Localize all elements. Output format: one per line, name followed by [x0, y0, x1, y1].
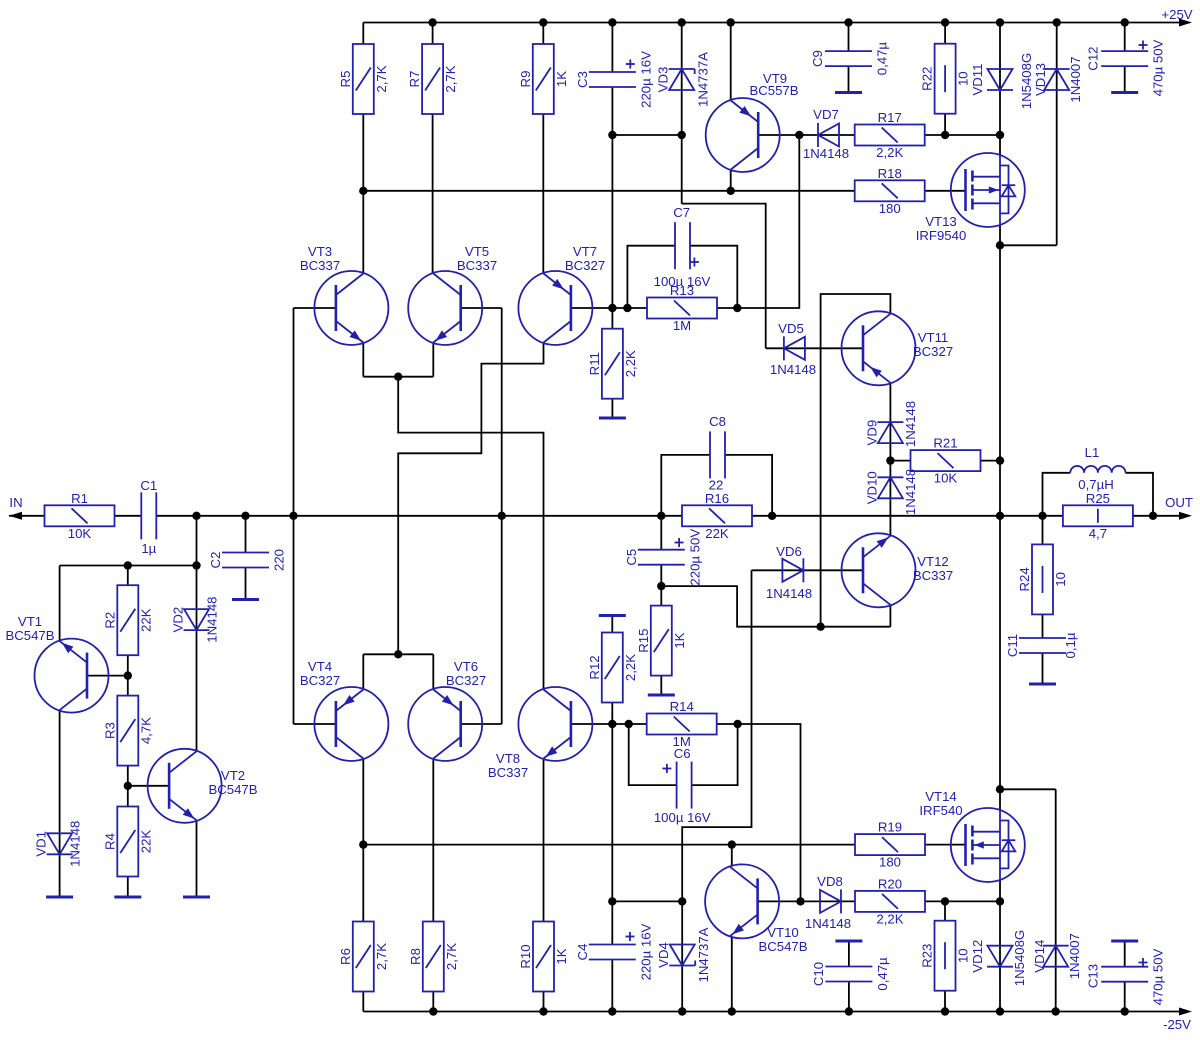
wire VT10 collector: [731, 845, 733, 867]
svg-text:2,7K: 2,7K: [444, 943, 459, 970]
wire VT9 collector to rail: [730, 170, 732, 191]
svg-text:BC327: BC327: [565, 258, 605, 273]
svg-text:R4: R4: [102, 833, 117, 850]
ground C10: [835, 940, 862, 943]
svg-text:1N4007: 1N4007: [1068, 56, 1083, 102]
capacitor C9: [810, 42, 890, 76]
svg-text:2,2K: 2,2K: [623, 350, 638, 377]
junction R23 bottom rail: [941, 1007, 949, 1015]
capacitor C8: [709, 414, 726, 493]
svg-text:VT1: VT1: [18, 614, 42, 629]
svg-text:1M: 1M: [673, 318, 691, 333]
wire R7 top: [432, 23, 434, 45]
svg-text:R18: R18: [878, 166, 902, 181]
svg-text:OUT: OUT: [1165, 495, 1193, 510]
wire R10 bottom: [543, 992, 545, 1012]
junction C9 top rail: [844, 18, 852, 26]
resistor R20: [855, 876, 925, 926]
wire stair top emitters to VT8 collector: [398, 377, 543, 689]
wire VT5/VT6 base column: [501, 308, 503, 724]
capacitor C4: [575, 923, 654, 980]
wire R21 right lead: [980, 460, 1001, 462]
node IN terminal: [9, 495, 45, 520]
ground C2: [232, 598, 259, 601]
ground C12: [1111, 91, 1138, 94]
svg-text:1N4148: 1N4148: [766, 586, 812, 601]
svg-text:C1: C1: [140, 478, 157, 493]
resistor R21: [911, 436, 981, 486]
resistor R17: [855, 110, 925, 160]
wire VT10 base through VD8 to R20: [758, 900, 855, 902]
transistor VT4: [300, 659, 389, 761]
wire R8 bottom: [432, 992, 434, 1012]
svg-text:VD12: VD12: [970, 940, 985, 973]
svg-text:R7: R7: [407, 71, 422, 88]
wire main line R16 to R25: [752, 515, 1063, 517]
svg-text:R24: R24: [1017, 567, 1032, 591]
svg-text:100µ 16V: 100µ 16V: [654, 274, 711, 289]
zener VD3: [656, 52, 711, 107]
junction R16 right C8: [768, 512, 776, 520]
junction R22 bottom R17: [941, 131, 949, 139]
svg-text:VD5: VD5: [778, 321, 804, 336]
wire R4 bottom to ground: [127, 877, 129, 896]
resistor R7: [407, 44, 458, 114]
wire collector rail y190: [363, 190, 855, 192]
wire R13 right lead: [717, 307, 738, 309]
svg-text:VT5: VT5: [465, 244, 489, 259]
wire R5 top: [362, 23, 364, 45]
diode VD7: [803, 107, 849, 161]
svg-text:VD14: VD14: [1032, 940, 1047, 973]
svg-text:BC327: BC327: [300, 673, 340, 688]
svg-text:22K: 22K: [138, 608, 153, 632]
junction VT4 collector rail: [359, 840, 367, 848]
wire R5 bottom to rail: [362, 114, 364, 191]
wire C3 bottom column: [611, 87, 613, 308]
svg-text:1µ: 1µ: [141, 541, 156, 556]
wire R24 top: [1042, 516, 1044, 545]
junction VD2 top: [192, 561, 200, 569]
wire VT8 base row: [571, 723, 647, 725]
wire C5 top: [660, 516, 662, 550]
wire bias row y=565: [60, 565, 197, 567]
svg-text:C7: C7: [673, 205, 690, 220]
svg-text:VD2: VD2: [171, 607, 186, 633]
junction R7 top rail: [428, 18, 436, 26]
svg-text:BC547B: BC547B: [758, 939, 807, 954]
wire R23 bottom: [944, 991, 946, 1012]
resistor R16: [682, 491, 752, 541]
svg-text:VD7: VD7: [813, 107, 839, 122]
capacitor C12: [1086, 39, 1166, 96]
junction C10 bottom rail: [845, 1007, 853, 1015]
wire VT1 emitter up: [59, 566, 61, 641]
junction C7 left: [623, 304, 631, 312]
wire MOSFET source column: [999, 245, 1001, 789]
resistor R15: [636, 606, 687, 676]
svg-text:VD1: VD1: [34, 831, 49, 857]
diode VD12: [970, 930, 1027, 986]
svg-text:C6: C6: [674, 746, 691, 761]
wire VD6 row to VT12 base: [752, 569, 864, 571]
junction VT4 VT6 emitters: [394, 650, 402, 658]
wire VT3 emitter: [362, 343, 364, 377]
svg-text:1N5408G: 1N5408G: [1019, 53, 1034, 109]
svg-text:R25: R25: [1086, 491, 1110, 506]
svg-text:VT14: VT14: [925, 789, 957, 804]
junction VT3 VT4 bases: [289, 512, 297, 520]
svg-text:VD8: VD8: [817, 874, 843, 889]
svg-text:0,47µ: 0,47µ: [875, 42, 890, 76]
svg-text:VT6: VT6: [454, 659, 478, 674]
svg-text:BC547B: BC547B: [5, 628, 54, 643]
svg-text:VD4: VD4: [656, 942, 671, 968]
svg-text:1N4148: 1N4148: [805, 916, 851, 931]
wire C12 top: [1124, 23, 1126, 52]
svg-text:4,7: 4,7: [1089, 526, 1107, 541]
wire R8 top / VT6 collector: [432, 759, 434, 922]
svg-text:VT12: VT12: [917, 554, 949, 569]
wire R10 top / VT8 emitter: [543, 759, 545, 922]
svg-text:BC547B: BC547B: [208, 782, 257, 797]
wire VT3/VT4 base column: [293, 308, 295, 724]
svg-text:1N4737A: 1N4737A: [696, 927, 711, 982]
junction R8 bottom rail: [429, 1007, 437, 1015]
junction C5 bottom R15: [657, 582, 665, 590]
transistor VT8: [488, 687, 593, 780]
svg-text:R22: R22: [920, 67, 935, 91]
wire VT9 base drop: [737, 135, 799, 308]
wire R2 top: [127, 566, 129, 586]
wire C12 bottom to ground: [1124, 67, 1126, 92]
resistor R10: [518, 922, 569, 992]
resistor R11: [587, 329, 638, 399]
junction VD9 VD10 R21: [886, 456, 894, 464]
wire R11 bottom to ground: [611, 398, 613, 417]
resistor R5: [338, 44, 389, 114]
svg-text:R8: R8: [408, 948, 423, 965]
junction VT9 emitter rail: [727, 18, 735, 26]
junction VD3 top rail: [678, 18, 686, 26]
wire R22 top: [944, 23, 946, 44]
wire C4 bottom: [611, 960, 613, 1012]
svg-text:VT11: VT11: [918, 330, 949, 345]
wire R12 to C4 column: [611, 703, 613, 945]
junction C12 top rail: [1121, 18, 1129, 26]
wire C7 right loop: [690, 246, 737, 308]
junction VD11 top rail: [996, 18, 1004, 26]
svg-text:VD9: VD9: [864, 420, 879, 446]
svg-text:220µ 16V: 220µ 16V: [638, 51, 653, 108]
ground C11: [1029, 683, 1056, 686]
junction VT3 VT5 emitters: [394, 373, 402, 381]
svg-text:2,7K: 2,7K: [374, 65, 389, 92]
junction C5 C8 R16 left: [657, 512, 665, 520]
ground C13: [1111, 940, 1138, 943]
wire C10 top ground lead: [848, 943, 850, 967]
wire R11 top: [611, 308, 613, 329]
svg-text:470µ 50V: 470µ 50V: [1151, 948, 1166, 1005]
capacitor C1: [140, 478, 157, 556]
svg-text:VD10: VD10: [864, 471, 879, 504]
wire VD6 jog to VD4 node: [682, 570, 751, 901]
junction VD12 bottom rail: [996, 1007, 1004, 1015]
wire C6 right loop: [692, 724, 738, 785]
svg-text:VT10: VT10: [767, 925, 799, 940]
wire top emitters row: [363, 376, 433, 378]
junction R11 C3 column: [608, 304, 616, 312]
svg-text:R17: R17: [878, 110, 902, 125]
wire VD5 row to VT11 base: [766, 347, 863, 349]
wire R3 top: [127, 676, 129, 696]
wire C11 bottom to ground: [1042, 653, 1044, 683]
wire VT10 emitter to -25V: [731, 936, 733, 1011]
capacitor C13: [1086, 948, 1166, 1005]
resistor R25: [1063, 491, 1133, 541]
resistor R2: [102, 585, 153, 655]
svg-text:1N4737A: 1N4737A: [696, 52, 711, 107]
diode VD13: [1033, 56, 1083, 102]
transistor VT2: [148, 749, 258, 823]
transistor VT9: [706, 71, 799, 172]
transistor VT3: [300, 244, 389, 345]
transistor VT11: [842, 311, 954, 385]
junction C4 top node: [608, 897, 616, 905]
ground R4: [114, 896, 141, 899]
wire R4 top: [127, 786, 129, 807]
wire VT2 emitter to ground: [196, 821, 198, 896]
wire VT4 emitter: [362, 654, 364, 689]
resistor R14: [647, 699, 717, 749]
wire R2 bottom to node: [127, 655, 129, 675]
ground R12: [599, 614, 626, 617]
wire R1 to C1: [115, 515, 142, 517]
svg-text:IN: IN: [9, 495, 22, 510]
svg-text:0,47µ: 0,47µ: [875, 957, 890, 991]
svg-text:C10: C10: [811, 962, 826, 986]
wire R18 to VT13 gate: [924, 190, 966, 192]
wire C2 bottom to ground: [245, 568, 247, 599]
wire C5 node jog to driver collectors: [661, 586, 890, 627]
capacitor C2: [208, 549, 287, 571]
svg-text:C4: C4: [575, 944, 590, 961]
svg-text:IRF540: IRF540: [919, 803, 962, 818]
svg-text:2,2K: 2,2K: [876, 145, 903, 160]
junction VT11 VT12 collectors: [816, 623, 824, 631]
wire L1 left leg: [1043, 473, 1071, 516]
svg-text:VT4: VT4: [308, 659, 332, 674]
wire VT13 source: [999, 225, 1001, 245]
svg-text:180: 180: [879, 201, 901, 216]
junction C2 branch: [241, 512, 249, 520]
svg-text:R1: R1: [71, 491, 88, 506]
wire net y135 left segment: [612, 134, 681, 136]
wire R22 bottom: [944, 114, 946, 135]
svg-text:R14: R14: [670, 699, 694, 714]
junction VD14 bottom rail: [1052, 1007, 1060, 1015]
junction VD4 bottom rail: [678, 1007, 686, 1015]
svg-text:1N4148: 1N4148: [770, 362, 816, 377]
node OUT terminal: [1133, 495, 1193, 520]
svg-text:22: 22: [709, 478, 724, 493]
resistor R9: [518, 44, 569, 114]
svg-text:2,7K: 2,7K: [443, 65, 458, 92]
svg-text:1N4148: 1N4148: [205, 596, 220, 642]
svg-text:0,7µH: 0,7µH: [1078, 477, 1113, 492]
diode VD2: [171, 596, 220, 642]
junction VT9 base VD7: [795, 131, 803, 139]
wire R12 ground lead: [611, 617, 613, 633]
wire main input line C1 to R16: [156, 515, 682, 517]
svg-text:1N4148: 1N4148: [903, 469, 918, 515]
svg-text:VT8: VT8: [496, 751, 520, 766]
junction VT10 collector rail: [728, 840, 736, 848]
wire R19 to VT14 gate: [925, 844, 966, 846]
svg-text:BC327: BC327: [913, 344, 953, 359]
junction VD4 node: [678, 897, 686, 905]
svg-text:C5: C5: [624, 549, 639, 566]
svg-text:1N4007: 1N4007: [1067, 933, 1082, 979]
diode VD10: [864, 469, 918, 515]
wire C8 right drop: [725, 455, 772, 516]
svg-text:R6: R6: [338, 948, 353, 965]
svg-text:10: 10: [956, 948, 971, 963]
capacitor C5: [624, 529, 703, 586]
svg-text:VT13: VT13: [925, 214, 957, 229]
MOSFET VT13: [916, 153, 1025, 243]
junction C3 bottom node: [608, 131, 616, 139]
power +25V terminal: [1161, 7, 1192, 27]
svg-text:220: 220: [272, 549, 287, 571]
wire VT11 collector loop: [821, 294, 891, 627]
svg-text:VT7: VT7: [573, 244, 597, 259]
wire VT6 emitter: [432, 654, 434, 689]
MOSFET VT14: [919, 789, 1024, 882]
wire VD12 column: [999, 901, 1001, 1011]
capacitor C7: [654, 205, 711, 289]
junction R5 VT3 collector: [359, 187, 367, 195]
resistor R3: [102, 696, 153, 766]
wire VD13 column: [1056, 23, 1058, 246]
wire C9 bottom to ground: [848, 67, 850, 92]
svg-text:1K: 1K: [554, 71, 569, 87]
diode VD1: [34, 821, 83, 867]
svg-text:R19: R19: [878, 820, 902, 835]
svg-text:1N5408G: 1N5408G: [1012, 930, 1027, 986]
svg-text:220µ 50V: 220µ 50V: [687, 529, 702, 586]
transistor VT1: [5, 614, 108, 713]
junction VD13 top rail: [1053, 18, 1061, 26]
diode VD6: [766, 544, 812, 601]
svg-text:L1: L1: [1085, 445, 1100, 460]
junction L1 right R25: [1149, 512, 1157, 520]
svg-text:2,7K: 2,7K: [374, 943, 389, 970]
resistor R23: [920, 921, 971, 991]
wire VD14 column: [1055, 789, 1057, 1011]
resistor R4: [102, 807, 153, 877]
resistor R6: [338, 922, 389, 992]
svg-text:R5: R5: [338, 71, 353, 88]
junction VT2 base R3 R4: [124, 782, 132, 790]
svg-text:VT2: VT2: [221, 768, 245, 783]
wire VT13 source node to VD13: [1000, 244, 1057, 246]
svg-text:BC337: BC337: [488, 765, 528, 780]
wire VT3 base stub: [294, 307, 336, 309]
svg-text:22K: 22K: [138, 830, 153, 854]
wire C7 left loop: [627, 246, 675, 308]
wire +25V top rail: [363, 22, 1183, 24]
svg-text:R12: R12: [587, 655, 602, 679]
wire VT14 drain: [999, 789, 1001, 810]
svg-text:470µ 50V: 470µ 50V: [1151, 39, 1166, 96]
wire VT9 base through VD7 to R17: [758, 134, 855, 136]
svg-text:R11: R11: [587, 352, 602, 375]
zener VD4: [656, 927, 711, 982]
wire R14 right lead to VT10 base drop: [717, 724, 801, 901]
resistor R8: [408, 922, 459, 992]
wire R20 to R23 node to VT14 source node: [925, 900, 1000, 902]
wire C3 top: [611, 23, 613, 73]
junction VT14 drain VD14: [996, 785, 1004, 793]
transistor VT7: [518, 244, 605, 345]
svg-text:C8: C8: [709, 414, 726, 429]
ground C9: [835, 91, 862, 94]
svg-text:180: 180: [879, 855, 901, 870]
wire VT4 base stub: [294, 723, 336, 725]
ground R15: [648, 694, 675, 697]
svg-text:R21: R21: [933, 436, 957, 451]
svg-text:VT3: VT3: [308, 244, 332, 259]
capacitor C11: [1005, 632, 1078, 658]
wire VT12 collector: [889, 605, 891, 627]
wire C8 left drop: [661, 455, 710, 516]
svg-text:C12: C12: [1086, 46, 1101, 70]
svg-text:4,7K: 4,7K: [138, 717, 153, 744]
wire VT14 drain node to VD14: [1000, 788, 1056, 790]
wire C13 bottom: [1124, 982, 1126, 1012]
svg-text:10: 10: [956, 71, 971, 86]
wire R6 bottom: [362, 992, 364, 1012]
wire R9 top: [542, 23, 544, 45]
junction VD2 branch: [192, 512, 200, 520]
svg-text:0,1µ: 0,1µ: [1063, 632, 1078, 658]
wire VT1 collector to VD1 to ground: [59, 711, 61, 896]
svg-text:R20: R20: [878, 876, 902, 891]
wire VT5 emitter: [432, 343, 434, 377]
svg-text:1K: 1K: [554, 948, 569, 964]
junction R20 R23: [941, 897, 949, 905]
junction R22 top rail: [941, 18, 949, 26]
svg-text:1K: 1K: [672, 632, 687, 648]
diode VD8: [805, 874, 851, 931]
junction VT10 base VD8: [796, 897, 804, 905]
diode VD5: [770, 321, 816, 377]
wire R21 left lead: [890, 460, 911, 462]
junction C4 bottom rail: [608, 1007, 616, 1015]
svg-text:2,2K: 2,2K: [876, 911, 903, 926]
wire VD4 column: [681, 901, 683, 1011]
wire C10 bottom: [848, 982, 850, 1012]
transistor VT6: [408, 659, 486, 761]
inductor L1: [1070, 445, 1125, 492]
wire VD3 column: [681, 23, 683, 204]
wire C5 bottom: [660, 565, 662, 586]
wire VD2 column to VT2 collector: [196, 566, 198, 751]
svg-text:2,2K: 2,2K: [623, 654, 638, 681]
capacitor C6: [654, 746, 711, 825]
ground R11: [599, 417, 626, 420]
